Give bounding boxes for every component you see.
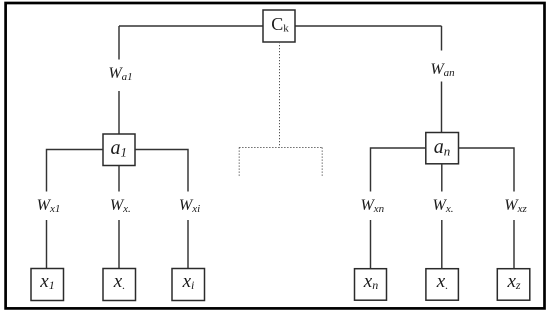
wire: column xi lower <box>187 220 189 269</box>
wire: column x. lower <box>118 220 120 269</box>
wire: dotted right tick <box>321 148 323 178</box>
wire: column x. right lower <box>441 220 443 269</box>
node x1 box <box>31 269 64 301</box>
wire: column xn lower <box>370 220 372 269</box>
wire: dotted left tick <box>238 148 240 178</box>
node x. box (right ellipsis) <box>426 269 459 301</box>
wire: horizontal bus from Ck right <box>295 25 442 27</box>
node xi box <box>172 269 205 301</box>
wire: column x1 lower <box>46 220 48 269</box>
node xn box <box>355 269 387 301</box>
wire: right drop upper segment <box>441 26 443 51</box>
wire: an right arm <box>459 148 515 192</box>
wire: dotted centre drop from Ck <box>279 42 281 148</box>
wire: a1 right arm <box>135 150 188 192</box>
node xz box <box>497 269 530 301</box>
node x. box (left ellipsis) <box>103 269 136 301</box>
wire: left drop upper segment <box>118 26 120 60</box>
node Ck box <box>263 10 295 42</box>
node an box <box>426 133 459 164</box>
wire: a1 middle drop <box>118 166 120 192</box>
wire: left drop lower segment <box>118 91 120 134</box>
wire: dotted horizontal bracket <box>239 147 322 149</box>
wire: horizontal bus from Ck left <box>119 25 263 27</box>
wire: an middle drop <box>441 164 443 192</box>
wire: right drop lower segment <box>441 82 443 133</box>
wire: a1 left arm <box>47 150 104 192</box>
wire: column xz lower <box>513 220 515 269</box>
wire: an left arm <box>371 148 426 192</box>
node a1 box <box>103 134 135 166</box>
